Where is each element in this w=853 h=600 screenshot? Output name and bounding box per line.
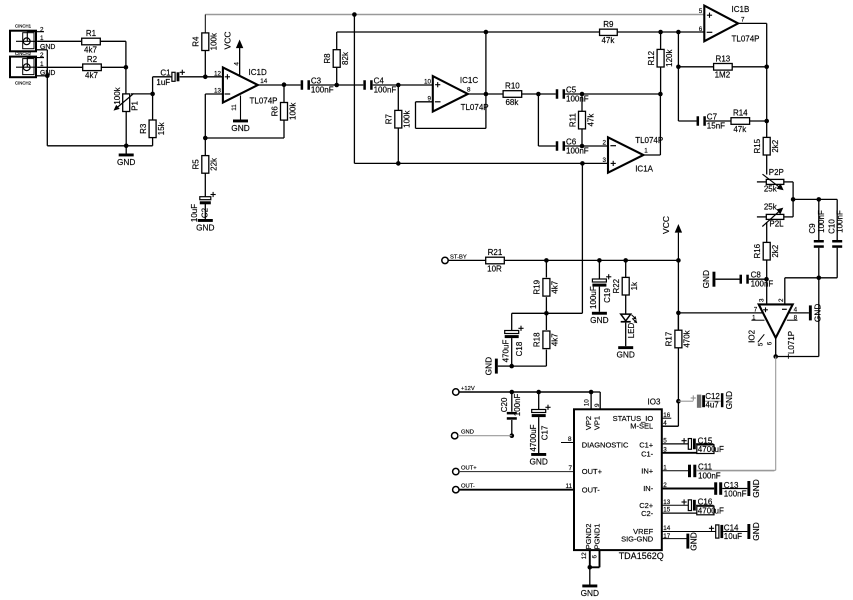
svg-text:R9: R9 (603, 20, 614, 29)
svg-text:4700: 4700 (698, 445, 716, 454)
svg-text:5: 5 (663, 438, 667, 445)
svg-text:GND: GND (724, 391, 734, 409)
svg-text:2: 2 (602, 139, 606, 146)
svg-text:12: 12 (214, 70, 222, 77)
svg-text:GND: GND (616, 350, 634, 360)
svg-text:C20: C20 (500, 397, 509, 412)
svg-text:2: 2 (40, 26, 44, 33)
svg-text:4700uF: 4700uF (529, 424, 538, 451)
svg-text:SIG-GND: SIG-GND (621, 534, 654, 543)
svg-text:470uF: 470uF (502, 340, 511, 363)
svg-text:OUT-: OUT- (461, 484, 475, 490)
svg-text:R10: R10 (505, 82, 520, 91)
svg-text:100nF: 100nF (374, 85, 397, 94)
svg-text:15k: 15k (157, 121, 166, 135)
svg-text:R3: R3 (139, 123, 148, 134)
svg-text:GND: GND (484, 357, 494, 375)
svg-text:15: 15 (663, 507, 671, 514)
svg-text:4k7: 4k7 (84, 45, 97, 54)
svg-text:R19: R19 (533, 279, 542, 294)
svg-text:100nF: 100nF (751, 279, 774, 288)
svg-text:LED: LED (627, 322, 636, 338)
svg-text:14: 14 (663, 525, 671, 532)
svg-text:TL074P: TL074P (461, 103, 489, 112)
svg-text:47k: 47k (601, 36, 615, 45)
svg-text:9: 9 (594, 403, 601, 407)
svg-text:R15: R15 (753, 138, 762, 153)
svg-text:TL074P: TL074P (732, 35, 760, 44)
svg-text:uF: uF (715, 506, 724, 515)
svg-text:7: 7 (568, 465, 572, 472)
svg-text:R6: R6 (270, 106, 279, 117)
svg-text:R7: R7 (385, 114, 394, 125)
svg-text:C1+: C1+ (639, 440, 654, 449)
svg-text:10: 10 (584, 399, 591, 407)
svg-text:GND: GND (196, 222, 214, 232)
svg-text:R14: R14 (733, 109, 748, 118)
svg-text:25k: 25k (764, 185, 778, 194)
svg-text:C2-: C2- (641, 509, 654, 518)
svg-text:OUT-: OUT- (582, 485, 600, 494)
svg-text:IO3: IO3 (648, 397, 661, 406)
svg-text:DIAGNOSTIC: DIAGNOSTIC (582, 440, 629, 449)
svg-text:1: 1 (663, 464, 667, 471)
svg-text:M-SEL: M-SEL (630, 422, 653, 431)
svg-text:2: 2 (40, 52, 44, 59)
svg-text:R8: R8 (323, 53, 332, 64)
svg-text:C7: C7 (707, 112, 718, 121)
svg-text:R22: R22 (612, 278, 621, 293)
svg-text:4k7: 4k7 (551, 333, 560, 346)
svg-text:10: 10 (424, 78, 432, 85)
svg-text:C4: C4 (374, 76, 385, 85)
svg-text:14: 14 (260, 78, 268, 85)
svg-text:17: 17 (663, 533, 671, 540)
svg-text:1: 1 (644, 148, 648, 155)
svg-text:GND: GND (581, 588, 599, 598)
svg-text:GND: GND (590, 315, 608, 325)
svg-text:100nF: 100nF (698, 471, 721, 480)
svg-text:P2P: P2P (769, 168, 784, 177)
svg-text:5: 5 (758, 342, 765, 346)
svg-text:VCC: VCC (222, 32, 232, 50)
svg-text:R16: R16 (753, 243, 762, 258)
svg-text:100nF: 100nF (836, 210, 845, 233)
svg-text:6: 6 (699, 26, 703, 33)
svg-text:47k: 47k (733, 125, 747, 134)
svg-text:GND: GND (117, 157, 135, 167)
svg-text:7: 7 (741, 17, 745, 24)
svg-text:IC1B: IC1B (732, 5, 750, 14)
svg-text:TL074P: TL074P (635, 136, 663, 145)
svg-text:4u7: 4u7 (705, 400, 719, 409)
svg-text:PGND1: PGND1 (593, 524, 602, 550)
svg-text:C1-: C1- (641, 449, 654, 458)
svg-text:8: 8 (467, 87, 471, 94)
svg-text:25k: 25k (764, 203, 778, 212)
svg-text:GND: GND (689, 532, 699, 550)
svg-text:R12: R12 (647, 50, 656, 65)
svg-text:uF: uF (715, 445, 724, 454)
svg-text:C18: C18 (515, 341, 524, 356)
svg-text:100nF: 100nF (311, 85, 334, 94)
svg-text:CINCH1: CINCH1 (15, 24, 32, 29)
svg-text:GND: GND (231, 123, 249, 133)
svg-text:C16: C16 (698, 497, 713, 506)
svg-text:4k7: 4k7 (551, 280, 560, 293)
svg-text:IN-: IN- (643, 484, 654, 493)
svg-text:R4: R4 (192, 36, 201, 47)
svg-text:3: 3 (663, 446, 667, 453)
svg-text:1M2: 1M2 (715, 71, 731, 80)
svg-text:82k: 82k (341, 51, 350, 65)
svg-text:16: 16 (663, 412, 671, 419)
svg-text:R13: R13 (716, 54, 731, 63)
svg-text:6: 6 (592, 555, 599, 559)
svg-text:OUT+: OUT+ (582, 467, 603, 476)
svg-text:R18: R18 (533, 332, 542, 347)
svg-text:IC1D: IC1D (249, 68, 267, 77)
svg-text:120k: 120k (665, 49, 674, 67)
svg-text:IC1A: IC1A (635, 164, 653, 173)
svg-text:1uF: 1uF (156, 78, 170, 87)
svg-text:R1: R1 (86, 29, 97, 38)
svg-text:6: 6 (767, 341, 774, 345)
svg-text:11: 11 (231, 104, 238, 111)
svg-text:100nF: 100nF (566, 146, 589, 155)
svg-text:10uF: 10uF (724, 532, 742, 541)
svg-text:C8: C8 (751, 270, 762, 279)
svg-text:4700: 4700 (698, 506, 716, 515)
svg-text:GND: GND (751, 522, 761, 540)
svg-text:C1: C1 (160, 68, 171, 77)
svg-text:OUT+: OUT+ (461, 465, 477, 471)
svg-text:100k: 100k (403, 110, 412, 128)
svg-text:100k: 100k (113, 86, 122, 104)
svg-text:C3: C3 (311, 76, 322, 85)
svg-text:100nF: 100nF (817, 210, 826, 233)
svg-text:GND: GND (812, 304, 822, 322)
svg-text:1k: 1k (630, 281, 639, 290)
svg-text:100k: 100k (288, 102, 297, 120)
svg-text:5: 5 (699, 8, 703, 15)
svg-text:IN+: IN+ (641, 467, 654, 476)
svg-text:IC1C: IC1C (460, 76, 478, 85)
svg-text:TDA1562Q: TDA1562Q (619, 551, 664, 561)
svg-text:CINCH2: CINCH2 (15, 81, 32, 86)
svg-text:TL074P: TL074P (250, 97, 278, 106)
svg-text:4: 4 (663, 420, 667, 427)
svg-text:15nF: 15nF (707, 121, 725, 130)
svg-text:P2L: P2L (769, 220, 784, 229)
svg-text:VP1: VP1 (592, 416, 601, 430)
svg-text:GND: GND (751, 479, 761, 497)
svg-text:100nF: 100nF (724, 489, 747, 498)
svg-text:13: 13 (214, 88, 222, 95)
svg-text:2k2: 2k2 (771, 244, 780, 257)
svg-text:2: 2 (663, 482, 667, 489)
svg-text:+12V: +12V (461, 386, 475, 392)
svg-text:C6: C6 (566, 137, 577, 146)
svg-text:100uF: 100uF (589, 286, 598, 309)
svg-text:R11: R11 (568, 113, 577, 128)
svg-text:P1: P1 (131, 100, 140, 110)
svg-text:GND: GND (701, 270, 711, 288)
svg-text:3: 3 (602, 157, 606, 164)
svg-text:68k: 68k (505, 98, 519, 107)
svg-text:3: 3 (758, 298, 765, 302)
svg-text:R21: R21 (488, 248, 503, 257)
svg-text:4k7: 4k7 (85, 71, 98, 80)
svg-text:2: 2 (778, 298, 785, 302)
svg-text:100nF: 100nF (513, 393, 522, 416)
svg-text:10uF: 10uF (190, 204, 199, 222)
svg-text:IO2: IO2 (748, 329, 757, 342)
svg-text:CINCH2: CINCH2 (15, 51, 32, 56)
svg-text:C2: C2 (201, 207, 210, 218)
svg-text:10R: 10R (487, 264, 502, 273)
svg-text:C17: C17 (541, 425, 550, 440)
svg-text:13: 13 (663, 499, 671, 506)
svg-text:2k2: 2k2 (771, 139, 780, 152)
svg-text:R2: R2 (87, 55, 98, 64)
svg-text:GND: GND (529, 456, 547, 466)
svg-text:R5: R5 (192, 159, 201, 170)
svg-text:C5: C5 (566, 85, 577, 94)
svg-text:VCC: VCC (661, 216, 671, 234)
svg-text:11: 11 (565, 483, 572, 490)
svg-text:C9: C9 (808, 223, 817, 234)
svg-text:12: 12 (581, 552, 588, 560)
svg-text:100k: 100k (210, 32, 219, 50)
svg-text:GND: GND (461, 430, 474, 436)
svg-text:ST-BY: ST-BY (450, 254, 467, 260)
svg-text:100nF: 100nF (566, 94, 589, 103)
svg-text:C15: C15 (698, 436, 713, 445)
svg-text:8: 8 (568, 436, 572, 443)
svg-text:22k: 22k (210, 157, 219, 171)
svg-text:C19: C19 (603, 288, 612, 303)
svg-text:TL071P: TL071P (787, 331, 796, 359)
svg-text:47k: 47k (586, 113, 595, 127)
svg-text:470k: 470k (683, 329, 692, 347)
svg-text:R17: R17 (665, 331, 674, 346)
